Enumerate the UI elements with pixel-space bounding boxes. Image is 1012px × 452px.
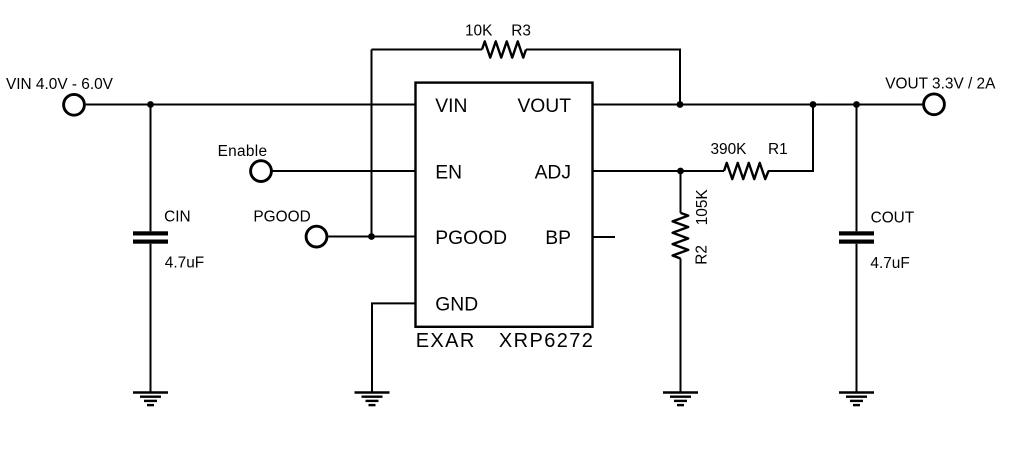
svg-text:4.7uF: 4.7uF bbox=[165, 254, 204, 271]
svg-text:EXAR: EXAR bbox=[416, 330, 476, 352]
svg-text:VOUT 3.3V / 2A: VOUT 3.3V / 2A bbox=[885, 76, 996, 93]
terminal VIN input port bbox=[64, 94, 85, 115]
svg-text:PGOOD: PGOOD bbox=[435, 228, 507, 249]
svg-text:4.7uF: 4.7uF bbox=[870, 255, 909, 272]
svg-text:Enable: Enable bbox=[218, 143, 268, 160]
wire CIN bottom lead bbox=[150, 244, 152, 392]
svg-text:GND: GND bbox=[435, 295, 478, 316]
svg-text:R2: R2 bbox=[694, 245, 711, 265]
resistor R3 bbox=[482, 41, 526, 57]
capacitor CIN bbox=[133, 231, 168, 243]
svg-text:VOUT: VOUT bbox=[517, 96, 571, 117]
IC U1 XRP6272 box bbox=[416, 83, 593, 327]
junction dot PGOOD/R3 node bbox=[368, 233, 375, 240]
svg-text:R3: R3 bbox=[511, 22, 531, 39]
ground under COUT bbox=[839, 393, 874, 406]
svg-text:EN: EN bbox=[435, 162, 462, 183]
terminal VOUT port bbox=[924, 94, 945, 115]
terminal Enable port bbox=[251, 161, 272, 182]
svg-text:BP: BP bbox=[545, 228, 571, 249]
svg-text:105K: 105K bbox=[694, 189, 711, 226]
junction dot VOUT/R1 bbox=[810, 101, 817, 108]
junction dot VOUT/R3 bbox=[677, 101, 684, 108]
wire VIN terminal to IC VIN pin bbox=[86, 104, 416, 106]
ground under R2 bbox=[663, 393, 698, 406]
wire COUT top lead bbox=[856, 105, 858, 232]
svg-text:R1: R1 bbox=[768, 141, 788, 158]
terminal PGOOD port bbox=[306, 226, 327, 247]
wire VOUT pin to VOUT terminal bbox=[593, 104, 923, 106]
junction dot ADJ/R2 node bbox=[677, 168, 684, 175]
svg-text:VIN 4.0V - 6.0V: VIN 4.0V - 6.0V bbox=[6, 76, 114, 93]
svg-text:XRP6272: XRP6272 bbox=[499, 330, 594, 352]
wire PGOOD to PGOOD pin bbox=[328, 236, 415, 238]
svg-text:VIN: VIN bbox=[435, 96, 467, 117]
ground under GND pin bbox=[355, 393, 390, 406]
svg-text:COUT: COUT bbox=[871, 209, 915, 226]
wire BP stub bbox=[593, 236, 616, 238]
wire R2 top lead bbox=[680, 171, 682, 213]
wire CIN top lead bbox=[150, 105, 152, 232]
wire GND pin to ground bbox=[372, 303, 416, 391]
wire top to R3 bbox=[372, 49, 483, 51]
wire R3 to VOUT node bbox=[526, 50, 680, 105]
wire R2 bottom lead bbox=[680, 259, 682, 392]
junction dot VIN/CIN node bbox=[147, 101, 154, 108]
svg-text:ADJ: ADJ bbox=[535, 162, 571, 183]
wire Enable to EN pin bbox=[272, 170, 415, 172]
resistor R2 bbox=[673, 213, 689, 259]
svg-text:10K: 10K bbox=[465, 22, 493, 39]
wire ADJ pin to R1 bbox=[593, 170, 725, 172]
capacitor COUT bbox=[839, 231, 874, 243]
wire COUT bottom lead bbox=[856, 244, 858, 392]
ground under CIN bbox=[133, 393, 168, 406]
svg-text:390K: 390K bbox=[711, 141, 748, 158]
svg-text:PGOOD: PGOOD bbox=[253, 209, 310, 226]
junction dot VOUT/COUT bbox=[853, 101, 860, 108]
svg-text:CIN: CIN bbox=[164, 208, 191, 225]
wire R3 left vertical (PGOOD pull-up) bbox=[371, 50, 373, 237]
wire R1 to VOUT bbox=[768, 105, 813, 172]
resistor R1 bbox=[724, 163, 769, 179]
